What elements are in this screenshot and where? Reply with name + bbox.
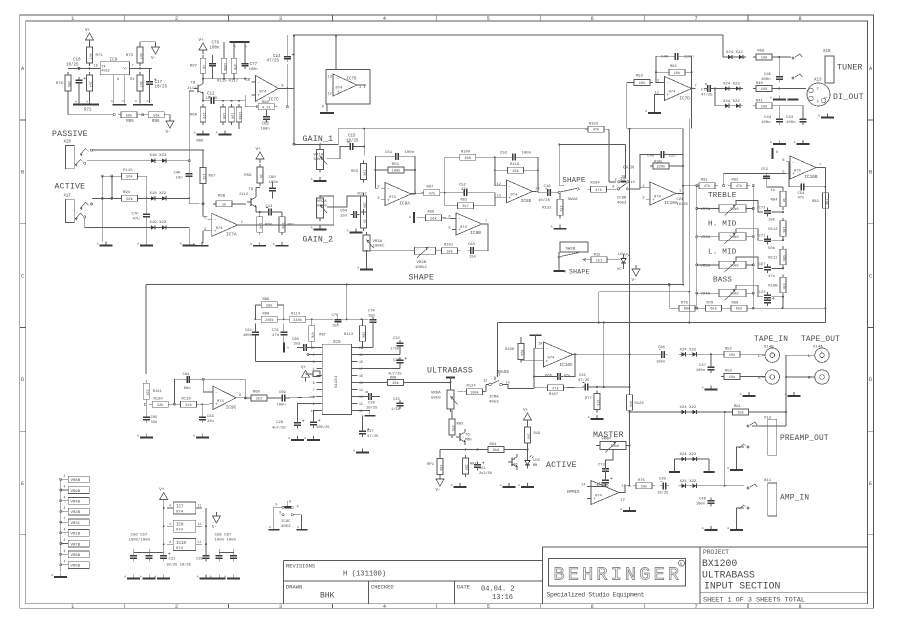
svg-text:X24 X22: X24 X22: [723, 100, 740, 104]
svg-text:A: A: [620, 508, 622, 511]
svg-text:ACTIVE: ACTIVE: [55, 183, 86, 192]
svg-text:X20: X20: [64, 141, 72, 145]
capacitor C76: [272, 324, 288, 343]
capacitor C16: [538, 185, 558, 203]
svg-text:5: 5: [487, 604, 490, 610]
IC6 pin20 row: [357, 347, 373, 349]
svg-text:11: 11: [198, 540, 202, 544]
svg-text:7: 7: [485, 220, 487, 224]
resistor RG1: [700, 405, 752, 416]
svg-text:VR2A: VR2A: [317, 200, 327, 204]
svg-text:VR9A: VR9A: [431, 392, 441, 396]
svg-text:A: A: [500, 484, 502, 487]
wire preamp-amp vertical: [724, 412, 726, 486]
svg-text:C69: C69: [279, 391, 287, 395]
svg-text:C17: C17: [701, 88, 708, 92]
specialized studio equipment text: [547, 591, 645, 598]
ultrabass wires2: [0, 0, 1, 1]
svg-text:BHK: BHK: [320, 592, 335, 601]
resistor R77: [585, 391, 600, 413]
svg-text:X18 X22: X18 X22: [150, 192, 167, 196]
svg-text:-: -: [257, 81, 260, 86]
svg-text:R70: R70: [56, 82, 64, 86]
svg-text:C15: C15: [348, 135, 356, 139]
svg-text:2: 2: [642, 185, 644, 189]
svg-text:IC7A: IC7A: [226, 232, 237, 237]
svg-text:074: 074: [669, 91, 677, 95]
wire T8 source row: [202, 97, 208, 102]
wire ultrabass mix: [458, 385, 535, 392]
resistor R115b: [221, 42, 227, 79]
svg-text:X24 X22: X24 X22: [680, 480, 697, 484]
grounds R60 R61: [250, 242, 288, 246]
svg-text:HPMIX: HPMIX: [567, 491, 580, 495]
wire IC10C fb: [533, 348, 576, 388]
svg-text:3: 3: [377, 197, 379, 201]
IC7 IC8 IC10 power boxes: [167, 502, 202, 551]
svg-text:47n: 47n: [768, 275, 775, 279]
svg-text:X24 X22: X24 X22: [680, 348, 697, 352]
wire tape net: [700, 353, 766, 376]
IC10D labels: [596, 485, 626, 503]
wire IC10B out: [816, 168, 826, 323]
ground C45: [770, 96, 799, 100]
svg-text:R105: R105: [654, 160, 662, 164]
connector X10 tuner: [823, 50, 834, 83]
svg-text:TAPE_IN: TAPE_IN: [754, 336, 788, 344]
svg-text:R94: R94: [490, 443, 498, 447]
svg-text:10/25: 10/25: [346, 139, 359, 144]
wire rg1 to jack: [749, 411, 788, 413]
svg-text:R87: R87: [319, 333, 325, 337]
svg-text:R60: R60: [190, 114, 198, 118]
svg-text:7: 7: [132, 65, 134, 69]
ground XLR: [818, 114, 834, 118]
svg-text:6: 6: [313, 381, 315, 385]
svg-text:L. MID: L. MID: [708, 249, 737, 257]
svg-text:33n: 33n: [207, 420, 214, 424]
wire active ring to diodes: [85, 218, 148, 228]
transistor T8 active: [239, 188, 257, 210]
resistor R72a: [87, 72, 93, 94]
svg-text:R95: R95: [126, 120, 134, 124]
svg-text:4: 4: [64, 495, 66, 499]
capacitor C66: [545, 373, 570, 380]
svg-text:074: 074: [794, 170, 802, 174]
svg-text:-: -: [214, 218, 217, 223]
svg-text:10k: 10k: [729, 375, 735, 380]
capacitor C61: [243, 324, 259, 362]
op-amp IC8D: [497, 180, 540, 204]
svg-text:50k0: 50k0: [314, 157, 324, 162]
svg-text:PASSIVE: PASSIVE: [52, 130, 88, 139]
resistor R119c: [178, 397, 200, 408]
svg-text:100n/100n: 100n/100n: [129, 538, 151, 543]
wire IC7D out to DI: [705, 84, 723, 92]
svg-text:SW2A: SW2A: [568, 198, 578, 202]
svg-text:R40: R40: [756, 82, 764, 86]
svg-text:100n: 100n: [249, 68, 258, 72]
svg-text:13: 13: [328, 76, 332, 80]
capacitor C79: [209, 55, 216, 79]
svg-text:R88: R88: [732, 302, 740, 306]
treble resistor R82: [728, 179, 750, 190]
svg-text:100n 100n: 100n 100n: [215, 539, 237, 543]
svg-text:VR4B: VR4B: [71, 501, 81, 505]
svg-text:3: 3: [279, 16, 282, 22]
IC6 pin910 to caps: [298, 404, 317, 420]
svg-text:1k: 1k: [201, 65, 206, 69]
svg-text:+: +: [337, 90, 340, 95]
grounds clamp: [669, 471, 715, 473]
switch ICMC: [274, 501, 302, 516]
svg-text:C45: C45: [764, 73, 772, 77]
resistor R62 fb: [666, 65, 688, 76]
ground X12: [727, 466, 743, 470]
svg-text:22u: 22u: [669, 155, 677, 159]
svg-text:A: A: [135, 100, 137, 103]
svg-text:A: A: [193, 435, 195, 438]
C50 C57 labels: [129, 534, 151, 543]
capacitor C10: [76, 77, 87, 86]
ground C28: [288, 436, 304, 440]
svg-text:C4K: C4K: [174, 172, 182, 176]
wire IC7D fb net: [655, 56, 693, 128]
svg-text:100n: 100n: [269, 181, 279, 185]
svg-text:L: L: [758, 354, 761, 359]
svg-text:C32: C32: [393, 337, 401, 341]
svg-text:12: 12: [497, 183, 501, 187]
svg-text:100n: 100n: [261, 127, 270, 131]
resistor R60: [257, 214, 273, 235]
svg-text:A: A: [273, 243, 275, 246]
svg-text:9: 9: [313, 402, 315, 406]
svg-text:10k: 10k: [362, 170, 367, 176]
svg-text:5: 5: [782, 170, 784, 174]
ACTIVE label led: [546, 461, 577, 470]
svg-text:10n: 10n: [176, 177, 184, 181]
resistor R120: [149, 397, 171, 408]
wire R53 in: [627, 82, 634, 128]
svg-text:R67: R67: [427, 186, 434, 190]
svg-text:20k: 20k: [361, 332, 366, 338]
svg-text:R84: R84: [771, 199, 779, 203]
resistor R96: [145, 112, 167, 124]
svg-text:100n: 100n: [761, 121, 771, 125]
resistor R19: [525, 424, 542, 446]
svg-text:56k: 56k: [430, 216, 436, 221]
resistor R93: [449, 410, 464, 438]
IC9 box: [100, 57, 133, 74]
resistor R83: [812, 186, 828, 211]
eq bottom resistor R88: [728, 302, 750, 312]
wire IC8A fb: [374, 156, 416, 194]
wire IC10D out: [619, 485, 631, 493]
svg-text:1k: 1k: [362, 219, 367, 223]
svg-text:2u2/50: 2u2/50: [479, 471, 492, 476]
svg-text:V-: V-: [212, 526, 217, 530]
resistor R53b: [631, 75, 653, 87]
IC6 pin13 row: [357, 392, 380, 400]
resistor R117: [231, 42, 237, 79]
svg-text:A: A: [180, 243, 182, 246]
svg-text:8: 8: [798, 16, 801, 22]
svg-text:C54: C54: [798, 192, 806, 196]
capacitor C12: [206, 93, 219, 105]
svg-text:A: A: [287, 347, 289, 350]
svg-text:A: A: [137, 435, 139, 438]
svg-text:47n: 47n: [781, 283, 785, 289]
resistor R115: [119, 169, 141, 180]
svg-text:A: A: [194, 132, 196, 135]
svg-text:R68: R68: [253, 391, 261, 395]
EQ right rail: [752, 186, 754, 309]
svg-text:220: 220: [201, 113, 205, 119]
wire R103 right: [604, 129, 616, 182]
resistor R74: [130, 72, 143, 94]
svg-text:4: 4: [64, 538, 66, 542]
resistor R103: [585, 123, 607, 133]
capacitor C43: [786, 106, 807, 125]
svg-text:074: 074: [548, 357, 556, 361]
wire master net: [596, 411, 631, 447]
svg-text:10/25: 10/25: [657, 491, 669, 496]
pot VR2A: [317, 195, 328, 221]
power V+ IC6: [301, 366, 320, 381]
svg-text:VR9B: VR9B: [71, 490, 81, 494]
TAPE_OUT label: [801, 336, 840, 344]
svg-text:4k7: 4k7: [88, 53, 93, 59]
svg-text:R123: R123: [635, 402, 645, 406]
svg-text:C58 C8?: C58 C8?: [215, 534, 232, 538]
wire IC9 input row: [68, 67, 100, 69]
svg-text:X24 X22: X24 X22: [726, 51, 743, 55]
grounds under rca: [0, 0, 1, 1]
svg-text:IC10: IC10: [176, 542, 187, 546]
power V+ top-left: [85, 29, 94, 44]
svg-text:R5B: R5B: [218, 195, 226, 199]
svg-text:47n: 47n: [798, 196, 805, 200]
switch ICMA: [486, 377, 505, 386]
svg-text:3: 3: [204, 228, 206, 232]
connector X1F: [64, 195, 93, 223]
IC6 pins: [311, 346, 363, 413]
treble resistor R81: [696, 179, 718, 190]
power V- LD4: [624, 265, 641, 283]
svg-text:12: 12: [359, 402, 363, 406]
wire lower diodes gnd: [169, 228, 189, 243]
svg-text:100: 100: [761, 57, 767, 61]
power V+ R59: [256, 148, 265, 163]
wiper net VR7A: [736, 201, 763, 213]
svg-text:4: 4: [169, 540, 171, 544]
svg-text:15n: 15n: [340, 215, 348, 219]
transistor T7: [508, 454, 518, 470]
ultrabass input vertical: [146, 283, 684, 374]
svg-text:100n: 100n: [210, 46, 221, 50]
capacitor C46: [696, 498, 715, 507]
power V- RP1: [436, 475, 445, 493]
svg-text:A: A: [702, 387, 704, 390]
svg-text:C: C: [869, 273, 872, 279]
svg-text:A: A: [51, 574, 53, 577]
power V+ R97: [199, 39, 208, 54]
svg-text:C51: C51: [385, 151, 393, 155]
resistor R40: [753, 82, 775, 92]
op-amp IC8A: [377, 183, 416, 207]
svg-text:V+: V+: [85, 29, 91, 33]
capacitor C2E: [578, 374, 591, 391]
svg-text:VR3C: VR3C: [71, 522, 81, 526]
wire R95-R96: [137, 114, 148, 116]
svg-text:10k: 10k: [674, 71, 680, 76]
TREBLE label: [708, 192, 737, 200]
pot VR6A: [696, 233, 755, 244]
svg-text:R77: R77: [585, 397, 592, 401]
svg-text:10k: 10k: [737, 411, 743, 416]
svg-text:68n: 68n: [184, 387, 191, 391]
svg-text:A: A: [250, 243, 252, 246]
svg-text:DATE: DATE: [457, 585, 470, 591]
op-amp IC10D: [581, 481, 623, 505]
power V+ R19: [523, 409, 532, 424]
svg-text:47k: 47k: [310, 332, 315, 338]
svg-text:47k: 47k: [736, 184, 742, 189]
wire IC10C out: [573, 322, 659, 388]
VR wiper chain VR8B-VR5B: [60, 474, 90, 572]
svg-text:ACTIVE: ACTIVE: [546, 461, 577, 470]
wire R41 to XLR: [772, 105, 804, 107]
svg-text:R61: R61: [288, 224, 296, 228]
IC6 pin19 row: [357, 347, 400, 355]
svg-text:2: 2: [817, 88, 819, 92]
svg-text:A: A: [124, 576, 126, 579]
capacitor C20: [657, 478, 669, 496]
svg-text:A: A: [137, 243, 139, 246]
svg-text:100n: 100n: [656, 361, 665, 365]
wire to treble rail: [683, 185, 699, 187]
capacitor C64: [340, 210, 360, 219]
svg-text:A: A: [311, 227, 313, 230]
svg-text:R96: R96: [152, 120, 160, 124]
X11 contacts: [737, 484, 758, 526]
resistor R98 fb: [255, 101, 288, 111]
svg-text:C46: C46: [699, 498, 707, 502]
svg-text:-: -: [667, 81, 670, 86]
svg-text:3n3: 3n3: [294, 342, 302, 346]
svg-text:C64: C64: [340, 210, 348, 214]
svg-text:VR2B: VR2B: [71, 511, 81, 515]
svg-text:22k: 22k: [144, 389, 149, 395]
MASTER label: [593, 431, 624, 440]
svg-text:12: 12: [328, 93, 332, 97]
X14B label: [764, 346, 774, 350]
wire node to IC8D: [0, 0, 1, 1]
svg-text:2: 2: [615, 178, 617, 182]
resistor R100: [457, 150, 479, 161]
svg-text:50k0: 50k0: [730, 292, 738, 297]
svg-text:10/25: 10/25: [538, 198, 551, 203]
svg-text:IC8A: IC8A: [399, 202, 410, 207]
svg-text:SHAPE: SHAPE: [569, 269, 590, 276]
ground VR chain: [51, 573, 67, 577]
svg-text:50k0: 50k0: [317, 204, 327, 209]
C53 to R84: [767, 181, 783, 191]
svg-text:33n: 33n: [151, 421, 158, 425]
ground ICMB: [0, 0, 1, 1]
svg-text:56k: 56k: [126, 197, 132, 202]
svg-text:H. MID: H. MID: [708, 221, 737, 229]
PASSIVE label: [52, 130, 88, 139]
svg-text:11: 11: [198, 522, 202, 526]
svg-text:R66: R66: [197, 140, 205, 144]
svg-text:100n: 100n: [243, 334, 252, 338]
capacitor C23b: [474, 462, 485, 471]
capacitor C85: [143, 404, 158, 425]
svg-text:A: A: [551, 226, 553, 229]
svg-text:T8: T8: [191, 82, 196, 86]
IC6 box: [322, 340, 351, 415]
svg-text:4: 4: [64, 506, 66, 510]
drawn/checked/date text: [286, 584, 515, 602]
svg-text:SHAPE: SHAPE: [562, 177, 586, 185]
IC6 pin3 row: [255, 361, 316, 363]
capacitor C77: [242, 42, 258, 72]
svg-text:R107: R107: [549, 393, 558, 397]
HPMIX label: [567, 491, 580, 495]
resistor R52: [721, 348, 743, 358]
svg-text:R73: R73: [126, 54, 134, 58]
wire IC8A out: [411, 192, 424, 194]
ICMA labels: [483, 374, 510, 405]
capacitor C63: [468, 243, 477, 260]
svg-text:3: 3: [279, 604, 282, 610]
svg-text:4053: 4053: [617, 202, 627, 206]
pot VR10 master: [597, 438, 629, 453]
ground IC7D: [645, 109, 661, 113]
capacitor C71: [759, 235, 784, 245]
connector X12 preamp: [764, 417, 777, 456]
svg-text:X19 X22: X19 X22: [150, 221, 167, 225]
C58 C8 labels: [215, 534, 237, 543]
svg-text:100: 100: [221, 113, 225, 119]
wire tape down: [0, 0, 1, 1]
svg-text:A: A: [353, 450, 355, 453]
svg-text:C50 C57: C50 C57: [131, 534, 148, 538]
svg-text:C29: C29: [368, 402, 376, 406]
diode pair X18 X23 passive: [148, 154, 169, 163]
resistor R95: [113, 112, 140, 124]
pot VR5A: [696, 261, 755, 272]
svg-text:7: 7: [695, 16, 698, 22]
svg-text:1: 1: [71, 16, 74, 22]
wire T8 drain input row: [202, 73, 250, 80]
svg-text:16: 16: [359, 374, 363, 378]
wire IC8B in: [0, 0, 1, 1]
svg-text:C52: C52: [500, 152, 508, 156]
svg-text:47k: 47k: [450, 425, 455, 431]
capacitor C4K: [174, 171, 193, 181]
svg-text:LD2: LD2: [533, 459, 541, 463]
svg-text:11: 11: [198, 504, 202, 508]
resistor R57: [200, 165, 216, 187]
svg-text:04.04. 2: 04.04. 2: [481, 586, 515, 594]
resistor R87: [309, 319, 326, 348]
LED LD4: [617, 253, 630, 272]
AMP_IN label: [780, 495, 809, 503]
svg-text:LD4: LD4: [618, 253, 626, 257]
svg-text:15: 15: [359, 381, 363, 385]
